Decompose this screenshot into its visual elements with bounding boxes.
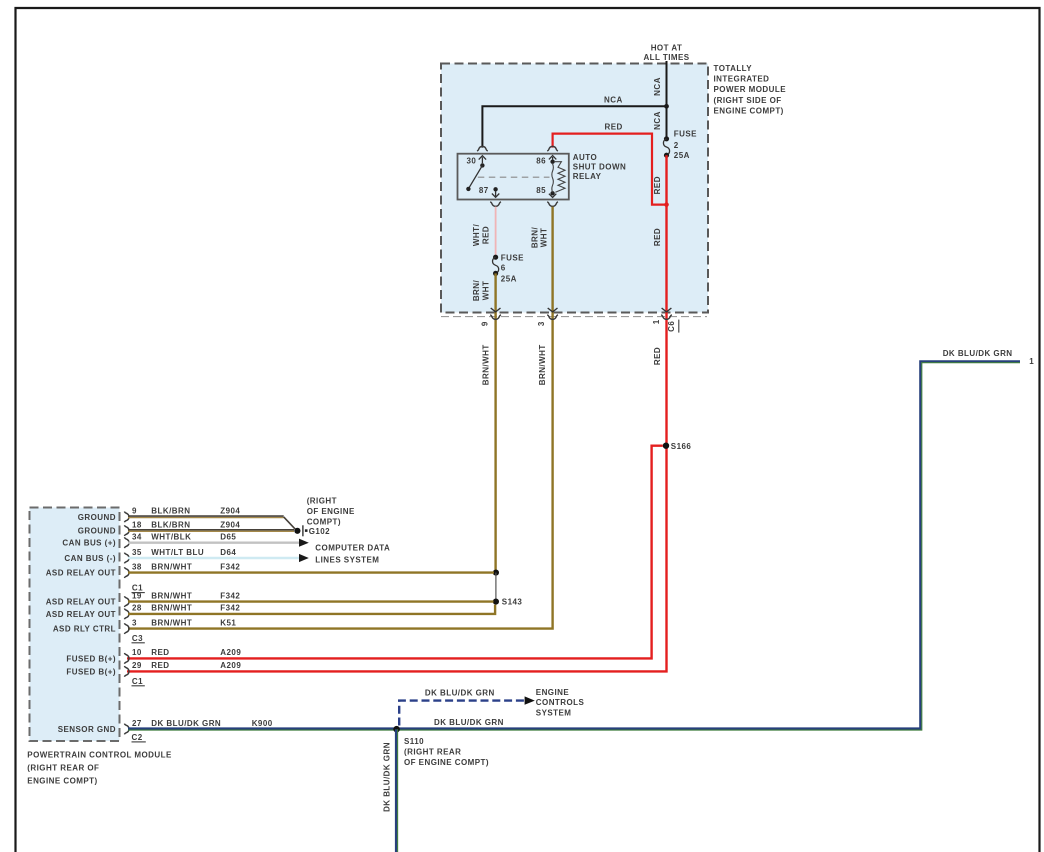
node: junction on NCA feed (664, 104, 669, 109)
svg-text:28: 28 (132, 604, 142, 613)
fuse F6 25A (493, 255, 499, 276)
svg-text:BRN/WHT: BRN/WHT (151, 562, 192, 571)
wire: RED main vertical from fuse 2 down through C6 to PCM pin 29 (127, 155, 667, 671)
PCM row pin 28: ASD RELAY OUT BRN/WHT F342 (46, 604, 495, 620)
svg-text:C2: C2 (132, 733, 143, 742)
PCM module box (30, 508, 120, 742)
module box: Totally Integrated Power Module (441, 64, 708, 317)
svg-text:D65: D65 (220, 533, 236, 542)
svg-text:CAN BUS (-): CAN BUS (-) (64, 554, 116, 563)
svg-text:BRN/WHT: BRN/WHT (151, 618, 192, 627)
label: connector C2 (132, 733, 146, 742)
svg-text:FUSED B(+): FUSED B(+) (66, 654, 116, 663)
svg-text:RED: RED (653, 176, 662, 194)
svg-text:ALL TIMES: ALL TIMES (643, 53, 689, 62)
splice S110 (393, 726, 400, 733)
connector arc below relay pin 85 (547, 202, 558, 207)
label: connector C1 lower (132, 677, 145, 686)
svg-text:9: 9 (481, 321, 490, 326)
PCM row pin 9: GROUND BLK/BRN Z904 (78, 507, 296, 531)
svg-text:FUSE: FUSE (501, 253, 524, 262)
svg-text:18: 18 (132, 520, 142, 529)
svg-text:TOTALLY: TOTALLY (714, 64, 753, 73)
svg-text:K900: K900 (252, 719, 273, 728)
svg-text:(RIGHT: (RIGHT (307, 497, 337, 506)
svg-text:BRN/WHT: BRN/WHT (151, 591, 192, 600)
wire: DK BLU/DK GRN down from S110 (396, 729, 398, 852)
svg-text:DK BLU/DK GRN: DK BLU/DK GRN (382, 742, 391, 812)
svg-text:85: 85 (536, 186, 546, 195)
relay switch arm (466, 165, 482, 191)
svg-text:COMPT): COMPT) (307, 518, 341, 527)
connector arc below relay pin 87 (490, 202, 501, 207)
label: FUSE 6 25A (501, 253, 524, 283)
svg-text:25A: 25A (501, 275, 517, 284)
relay pin 30 contact and arrow (479, 156, 486, 168)
svg-text:1: 1 (1029, 357, 1034, 366)
ground G102 (294, 525, 307, 536)
svg-text:(RIGHT REAR: (RIGHT REAR (404, 747, 461, 756)
svg-text:A209: A209 (220, 661, 241, 670)
svg-text:ASD RELAY OUT: ASD RELAY OUT (46, 610, 116, 619)
PCM row pin 38: ASD RELAY OUT BRN/WHT F342 (46, 562, 494, 578)
svg-text:(RIGHT REAR OF: (RIGHT REAR OF (27, 763, 99, 772)
svg-text:G102: G102 (309, 527, 330, 536)
svg-text:RED: RED (151, 648, 169, 657)
svg-text:DK BLU/DK GRN: DK BLU/DK GRN (434, 718, 504, 727)
svg-text:(RIGHT SIDE OF: (RIGHT SIDE OF (714, 96, 782, 105)
svg-text:F342: F342 (220, 604, 240, 613)
arrow to engine controls system (525, 696, 535, 704)
PCM row pin 29: FUSED B(+) RED A209 (66, 661, 241, 677)
svg-text:OF ENGINE COMPT): OF ENGINE COMPT) (404, 758, 489, 767)
wire: BRN/WHT from relay 85 down to PCM pin 3 (128, 207, 553, 629)
label: BRN/WHT rotated inside module (472, 279, 490, 301)
svg-text:C3: C3 (132, 634, 143, 643)
relay pin 86 contact and arrow (549, 156, 556, 164)
svg-text:2: 2 (674, 141, 679, 150)
wire: WHT/RED from relay 87 to fuse 6 (495, 207, 497, 258)
svg-text:RELAY: RELAY (573, 172, 602, 181)
relay: AUTO SHUT DOWN RELAY box (458, 154, 569, 200)
link between splices (495, 573, 497, 602)
PCM row pin 3: ASD RLY CTRL BRN/WHT K51 (53, 618, 237, 634)
svg-text:ASD RLY CTRL: ASD RLY CTRL (53, 625, 116, 634)
svg-text:19: 19 (132, 591, 142, 600)
label: COMPUTER DATA LINES SYSTEM (315, 543, 390, 564)
wire: BRN/WHT from fuse 6 down to splice (494, 273, 496, 572)
svg-text:WHT: WHT (481, 281, 490, 301)
svg-text:GROUND: GROUND (78, 527, 116, 536)
svg-text:RED: RED (605, 123, 623, 132)
svg-text:C1: C1 (132, 677, 143, 686)
svg-text:DK BLU/DK GRN: DK BLU/DK GRN (943, 349, 1013, 358)
PCM row pin 35: CAN BUS (-) WHT/LT BLU D64 (64, 548, 299, 564)
svg-text:BRN/: BRN/ (531, 226, 540, 248)
svg-text:ENGINE COMPT): ENGINE COMPT) (27, 776, 97, 785)
svg-text:HOT AT: HOT AT (651, 44, 683, 53)
label: HOT AT ALL TIMES (643, 44, 689, 62)
svg-text:9: 9 (132, 507, 137, 516)
node: red junction at fuse branch (664, 202, 669, 207)
svg-text:RED: RED (653, 228, 662, 246)
svg-text:SHUT DOWN: SHUT DOWN (573, 163, 626, 172)
svg-text:Z904: Z904 (220, 520, 240, 529)
splice S166 (663, 443, 669, 449)
label: BRN/WHT rotated at pin 85 wire (531, 226, 549, 248)
svg-text:BRN/: BRN/ (472, 279, 481, 301)
svg-text:S166: S166 (671, 442, 692, 451)
svg-text:NCA: NCA (604, 96, 623, 105)
svg-text:ENGINE COMPT): ENGINE COMPT) (714, 106, 784, 115)
PCM row pin 27: SENSOR GND DK BLU/DK GRN K900 (58, 719, 273, 735)
svg-text:RED: RED (653, 347, 662, 365)
svg-text:FUSED B(+): FUSED B(+) (66, 667, 116, 676)
svg-text:DK BLU/DK GRN: DK BLU/DK GRN (425, 688, 495, 697)
PCM row pin 34: CAN BUS (+) WHT/BLK D65 (62, 533, 299, 549)
svg-text:F342: F342 (220, 591, 240, 600)
svg-text:6: 6 (501, 264, 506, 273)
svg-text:34: 34 (132, 533, 142, 542)
wire: NCA branch to relay pin 30 (482, 106, 666, 147)
wire: RED branch from S166 to PCM pin 10 (127, 446, 663, 659)
svg-text:WHT/LT BLU: WHT/LT BLU (151, 548, 204, 557)
svg-text:38: 38 (132, 562, 142, 571)
label: FUSE 2 25A (674, 130, 697, 161)
label: connector C1 upper (132, 584, 145, 593)
svg-text:INTEGRATED: INTEGRATED (714, 75, 770, 84)
svg-text:1: 1 (652, 319, 661, 324)
svg-text:29: 29 (132, 661, 142, 670)
fuse F2 25A (663, 136, 669, 158)
svg-text:SENSOR GND: SENSOR GND (58, 725, 116, 734)
svg-text:SYSTEM: SYSTEM (536, 709, 572, 718)
svg-text:D64: D64 (220, 548, 236, 557)
label: connector C3 (132, 634, 145, 643)
svg-text:GROUND: GROUND (78, 513, 116, 522)
label: (RIGHT OF ENGINE COMPT) (307, 497, 355, 527)
label: TOTALLY INTEGRATED POWER MODULE (RIGHT SIDE OF ENGINE COMPT) (714, 64, 787, 115)
arrow at module exit pin 1 (662, 308, 672, 312)
relay coil between 86 and 85 (552, 162, 565, 193)
svg-text:NCA: NCA (653, 77, 662, 96)
svg-text:10: 10 (132, 648, 142, 657)
svg-text:27: 27 (132, 719, 142, 728)
svg-text:WHT/BLK: WHT/BLK (151, 533, 191, 542)
svg-text:ASD RELAY OUT: ASD RELAY OUT (46, 569, 116, 578)
svg-text:F342: F342 (220, 562, 240, 571)
svg-text:CONTROLS: CONTROLS (536, 698, 585, 707)
svg-text:POWERTRAIN CONTROL MODULE: POWERTRAIN CONTROL MODULE (27, 750, 172, 759)
arrow: CAN BUS (+) to computer data lines (299, 539, 309, 547)
svg-text:35: 35 (132, 548, 142, 557)
relay pin 85 contact and arrow (549, 191, 556, 197)
svg-text:BLK/BRN: BLK/BRN (151, 507, 190, 516)
svg-text:RED: RED (481, 226, 490, 244)
svg-text:DK BLU/DK GRN: DK BLU/DK GRN (151, 719, 221, 728)
svg-text:CAN BUS (+): CAN BUS (+) (62, 539, 116, 548)
svg-text:WHT/: WHT/ (472, 224, 481, 247)
wire: NCA feed from HOT AT ALL TIMES (666, 61, 668, 139)
svg-text:NCA: NCA (653, 111, 662, 130)
PCM row pin 10: FUSED B(+) RED A209 (66, 648, 241, 664)
relay internal: dashed link (478, 176, 550, 178)
svg-text:RED: RED (151, 661, 169, 670)
label: AUTO SHUT DOWN RELAY (573, 153, 626, 181)
label: connector C6 rotated with underline (667, 320, 679, 333)
connector arc above relay pin 30 (477, 146, 488, 151)
svg-text:BRN/WHT: BRN/WHT (538, 344, 547, 385)
splice S143 (493, 599, 499, 605)
svg-text:FUSE: FUSE (674, 130, 697, 139)
wire: RED from fuse 2 to relay pin 86 (553, 134, 665, 205)
svg-text:BLK/BRN: BLK/BRN (151, 520, 190, 529)
label: POWERTRAIN CONTROL MODULE (RIGHT REAR OF ENGINE COMPT) (27, 750, 172, 785)
svg-text:COMPUTER DATA: COMPUTER DATA (315, 543, 390, 552)
svg-text:S110: S110 (404, 737, 424, 746)
arrow: CAN BUS (-) to computer data lines (299, 554, 309, 562)
svg-text:3: 3 (537, 321, 546, 326)
connector arc below module pin 1 (661, 315, 672, 320)
relay pin 87 contact and arrow (492, 187, 499, 197)
connector arc below module pin 3 (547, 315, 558, 320)
label: ENGINE CONTROLS SYSTEM (536, 688, 585, 718)
svg-text:ENGINE: ENGINE (536, 688, 570, 697)
svg-text:A209: A209 (220, 648, 241, 657)
svg-text:AUTO: AUTO (573, 153, 597, 162)
svg-text:30: 30 (466, 157, 476, 166)
svg-text:Z904: Z904 (220, 507, 240, 516)
svg-text:86: 86 (536, 157, 546, 166)
connector arc above relay pin 86 (547, 146, 558, 151)
label: S110 (RIGHT REAR OF ENGINE COMPT) (404, 737, 489, 767)
svg-text:ASD RELAY OUT: ASD RELAY OUT (46, 598, 116, 607)
wire: dashed DK BLU/DK GRN to engine controls (399, 701, 524, 726)
svg-text:POWER MODULE: POWER MODULE (714, 85, 787, 94)
svg-text:BRN/WHT: BRN/WHT (481, 344, 490, 385)
svg-text:K51: K51 (220, 618, 236, 627)
PCM row pin 18: GROUND BLK/BRN Z904 (78, 520, 294, 536)
label: WHT/RED rotated (472, 224, 490, 247)
svg-text:BRN/WHT: BRN/WHT (151, 604, 192, 613)
svg-text:WHT: WHT (540, 228, 549, 248)
connector arc below module pin 9 (490, 315, 501, 320)
svg-text:87: 87 (479, 186, 489, 195)
svg-text:LINES SYSTEM: LINES SYSTEM (315, 556, 379, 565)
svg-text:S143: S143 (502, 598, 523, 607)
svg-text:3: 3 (132, 618, 137, 627)
splice above S143 (493, 570, 499, 576)
svg-text:25A: 25A (674, 151, 690, 160)
arrow at module exit pin 3 (548, 308, 558, 312)
svg-text:C6: C6 (667, 321, 676, 332)
svg-text:OF ENGINE: OF ENGINE (307, 507, 355, 516)
arrow at module exit pin 9 (491, 308, 501, 312)
wire: DK BLU/DK GRN main run (128, 361, 1020, 730)
PCM row pin 19: ASD RELAY OUT BRN/WHT F342 (46, 591, 494, 607)
